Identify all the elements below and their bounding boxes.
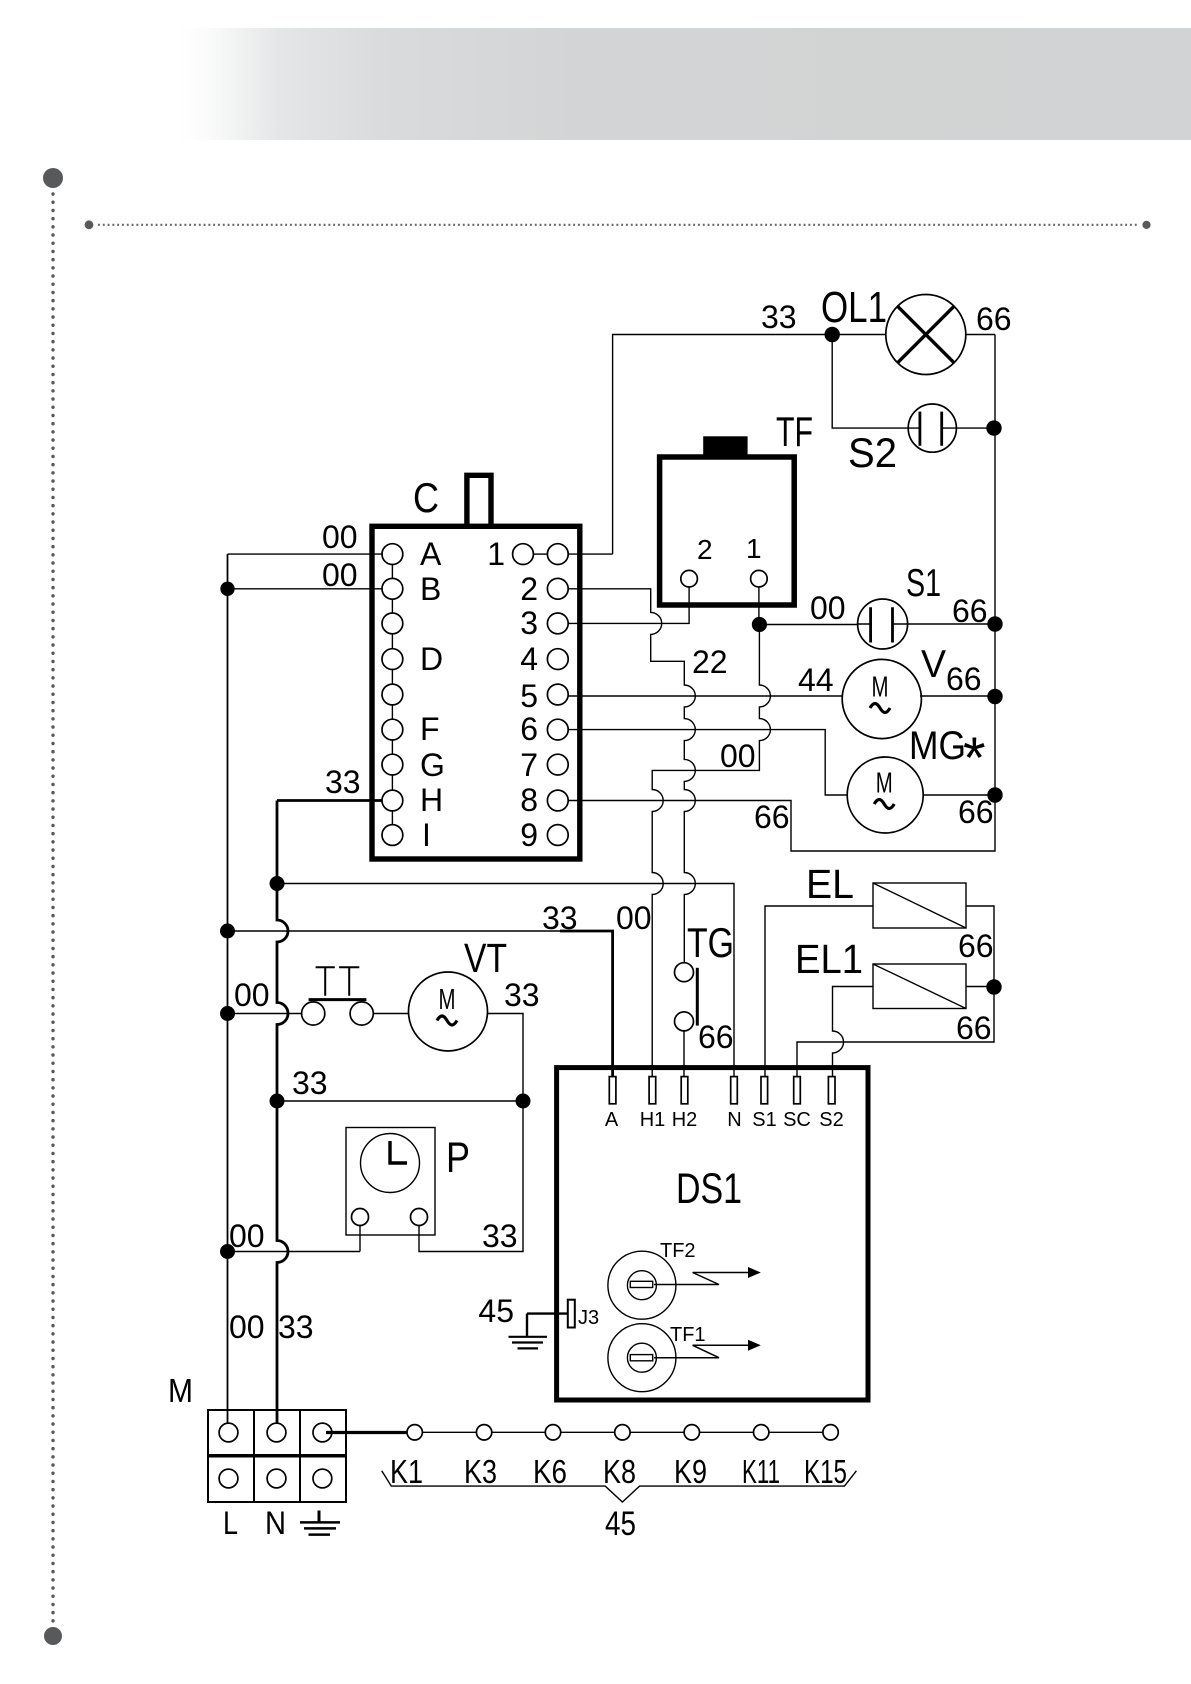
- pin S1 of DS1: [761, 1077, 768, 1104]
- wire K8-K9: [630, 1431, 684, 1433]
- wire 00 bus left vertical: [227, 554, 229, 1423]
- svg-text:EL: EL: [806, 861, 854, 907]
- wire M block to K1: [326, 1431, 407, 1434]
- terminal N top: [267, 1423, 286, 1442]
- svg-text:M: M: [876, 767, 893, 799]
- svg-text:*: *: [963, 726, 986, 791]
- wire VT to 33 node: [488, 1014, 524, 1102]
- svg-text:EL1: EL1: [795, 936, 863, 982]
- pin S2 of DS1: [828, 1077, 835, 1104]
- junction dot VT/P 1101: [516, 1094, 531, 1109]
- pin H2 of DS1: [681, 1077, 688, 1104]
- svg-text:M: M: [168, 1372, 193, 1409]
- svg-text:P: P: [446, 1134, 470, 1182]
- svg-text:33: 33: [292, 1065, 328, 1101]
- svg-text:5: 5: [520, 678, 538, 714]
- pin 6: [547, 719, 568, 740]
- svg-text:00: 00: [720, 738, 756, 774]
- terminal E bottom: [313, 1469, 332, 1488]
- svg-text:00: 00: [616, 900, 652, 936]
- pin C2: [382, 613, 403, 634]
- wire TF pin1 down to junction: [758, 587, 760, 625]
- pin 3: [547, 613, 568, 634]
- svg-text:45: 45: [478, 1293, 514, 1329]
- switch S2 branch wire: [832, 335, 908, 429]
- terminal K15: [823, 1425, 838, 1440]
- svg-text:22: 22: [692, 644, 728, 680]
- wire EL left to DS1 pin S1: [765, 906, 873, 1078]
- wire 00 bus to DS1 pin A: [228, 930, 561, 932]
- svg-text:I: I: [422, 817, 431, 853]
- svg-text:00: 00: [234, 977, 270, 1013]
- wire TG to DS1 pin H2: [683, 1031, 685, 1078]
- wire 33 bus left vertical with hops: [277, 801, 288, 1424]
- svg-text:33: 33: [761, 299, 797, 335]
- terminal K11: [754, 1425, 769, 1440]
- svg-text:TF: TF: [776, 408, 813, 455]
- svg-text:F: F: [420, 711, 440, 747]
- svg-text:66: 66: [956, 1010, 992, 1046]
- pin A: [382, 544, 403, 565]
- svg-text:00: 00: [229, 1309, 265, 1345]
- junction dot S2/66: [986, 420, 1001, 435]
- pin SC of DS1: [794, 1077, 801, 1104]
- wire C pin H to 33 bus: [277, 799, 382, 802]
- wire 33 bus to DS1 pin N: [277, 884, 734, 1079]
- wire net 22 from C pin2 with hops: [568, 589, 695, 963]
- brace under K row: [382, 1471, 857, 1502]
- wire P left terminal down: [359, 1226, 361, 1252]
- wire C pin A to 00 bus: [228, 553, 383, 555]
- svg-text:66: 66: [754, 799, 790, 835]
- svg-text:66: 66: [698, 1019, 734, 1055]
- terminal L bottom: [219, 1469, 238, 1488]
- ground symbol at M block: [300, 1511, 340, 1535]
- terminal K8: [615, 1425, 630, 1440]
- pin 9: [547, 825, 568, 846]
- junction dot 33 bus 1101: [270, 1094, 285, 1109]
- pin B: [382, 578, 403, 599]
- pin I: [382, 825, 403, 846]
- wire 66 bus right vertical with corner to C pin8: [568, 335, 995, 852]
- svg-text:44: 44: [798, 662, 834, 698]
- junction dot V/66: [987, 689, 1002, 704]
- junction dot EL1/66: [986, 979, 1001, 994]
- junction dot 33 bus at 883: [270, 876, 285, 891]
- wire net 33 top (C pin1 to OL1): [613, 335, 833, 555]
- switch TT (twin push-button): [302, 967, 374, 1025]
- svg-text:SC: SC: [783, 1109, 811, 1131]
- svg-text:DS1: DS1: [676, 1165, 742, 1213]
- svg-text:G: G: [420, 747, 445, 783]
- heating element EL1: [795, 936, 966, 1009]
- svg-text:MG: MG: [909, 724, 966, 768]
- terminal block M: [168, 1372, 347, 1541]
- svg-text:2: 2: [520, 571, 538, 607]
- terminal K9: [684, 1425, 699, 1440]
- fuse TF1: [608, 1324, 761, 1392]
- svg-text:00: 00: [322, 519, 358, 555]
- svg-text:H: H: [420, 782, 443, 818]
- pin H: [382, 790, 403, 811]
- svg-text:S2: S2: [848, 429, 897, 476]
- svg-text:TF2: TF2: [660, 1240, 696, 1262]
- wire net 00 from TF pin1 with hops to DS1 pin H1: [652, 625, 770, 1079]
- svg-text:A: A: [420, 536, 442, 572]
- terminal J3: [568, 1300, 575, 1328]
- wire S2 to 66 bus: [956, 427, 995, 429]
- wire K9-K11: [700, 1431, 754, 1433]
- svg-text:33: 33: [325, 764, 361, 800]
- svg-text:K6: K6: [533, 1453, 567, 1490]
- svg-text:00: 00: [322, 557, 358, 593]
- thermostat TG: [675, 919, 735, 1055]
- junction dot MG/66: [987, 787, 1002, 802]
- terminal N bottom: [267, 1469, 286, 1488]
- svg-text:1: 1: [746, 533, 762, 564]
- junction dot 00 bus at 931: [220, 924, 235, 939]
- svg-text:L: L: [223, 1505, 238, 1541]
- connector row K: [390, 1425, 847, 1490]
- svg-text:S1: S1: [906, 562, 941, 605]
- junction dot 00 bus at TT: [220, 1006, 235, 1021]
- wire K1-K3: [422, 1431, 476, 1433]
- svg-text:K11: K11: [742, 1453, 780, 1490]
- pin 2: [547, 578, 568, 599]
- wire S1 to 66 bus: [908, 623, 995, 625]
- svg-text:6: 6: [520, 711, 538, 747]
- fuse TF2: [608, 1240, 761, 1319]
- terminal K6: [545, 1425, 560, 1440]
- wire 00 bus to TT: [228, 1013, 302, 1015]
- svg-text:K8: K8: [603, 1453, 636, 1490]
- terminal E top: [313, 1423, 332, 1442]
- svg-text:66: 66: [952, 593, 988, 629]
- wire C pin B to 00 bus: [228, 588, 383, 590]
- svg-text:2: 2: [697, 534, 713, 565]
- pin 1 (two circles): [513, 544, 534, 565]
- wire junction to S1: [759, 624, 857, 626]
- terminal L top: [219, 1423, 238, 1442]
- pin F: [382, 719, 403, 740]
- svg-text:K3: K3: [464, 1453, 497, 1490]
- svg-text:D: D: [420, 641, 443, 677]
- svg-text:B: B: [420, 571, 441, 607]
- svg-text:1: 1: [487, 536, 505, 572]
- svg-text:K15: K15: [804, 1453, 847, 1490]
- svg-text:33: 33: [542, 900, 578, 936]
- junction dot S1/66: [987, 616, 1002, 631]
- wire C pin1 to node 33: [568, 553, 612, 555]
- switch S2: [848, 404, 956, 476]
- wire motor V to 66 bus: [920, 695, 995, 697]
- wire K3-K6: [492, 1431, 546, 1433]
- svg-text:66: 66: [976, 301, 1012, 337]
- svg-text:00: 00: [810, 590, 846, 626]
- svg-text:J3: J3: [578, 1307, 599, 1329]
- terminal K1: [407, 1425, 422, 1440]
- wire motor MG to 66 bus: [923, 794, 995, 796]
- ground symbol at J3: [509, 1314, 548, 1349]
- wire ground to J3: [527, 1312, 568, 1314]
- wire EL1 left to DS1 pin S2 with hop: [833, 987, 874, 1079]
- wire EL right to 66 node: [797, 906, 994, 1078]
- svg-text:C: C: [413, 474, 439, 521]
- svg-text:OL1: OL1: [821, 283, 887, 332]
- svg-text:K1: K1: [390, 1453, 423, 1490]
- svg-text:00: 00: [229, 1218, 265, 1254]
- wire K6-K8: [561, 1431, 615, 1433]
- svg-text:S1: S1: [752, 1109, 776, 1131]
- wire TT to VT: [373, 1013, 409, 1015]
- svg-text:66: 66: [946, 661, 982, 697]
- svg-text:H2: H2: [672, 1109, 698, 1131]
- terminal K3: [476, 1425, 491, 1440]
- svg-text:7: 7: [520, 747, 538, 783]
- pin 5: [547, 684, 568, 705]
- wire 00 bus to P left terminal: [228, 1251, 361, 1253]
- control board DS1: [557, 1068, 868, 1400]
- connector C: [372, 474, 580, 859]
- junction dot TF pin1 / 00 net: [752, 617, 767, 632]
- svg-text:33: 33: [504, 977, 540, 1013]
- svg-text:H1: H1: [640, 1109, 666, 1131]
- pin E: [382, 684, 403, 705]
- svg-text:TG: TG: [687, 919, 734, 966]
- svg-text:9: 9: [520, 817, 538, 853]
- motor MG*: [847, 724, 985, 833]
- svg-text:VT: VT: [464, 935, 507, 981]
- wire C pin6 to motor MG: [568, 730, 847, 795]
- pin 1 of TF: [751, 570, 768, 587]
- terminal left of P: [352, 1209, 369, 1226]
- pin N of DS1: [731, 1077, 738, 1104]
- lamp OL1: [821, 283, 966, 375]
- pin A of DS1: [609, 1077, 616, 1104]
- svg-text:8: 8: [520, 782, 538, 818]
- junction dot 00 bus 1251: [220, 1244, 235, 1259]
- svg-text:33: 33: [278, 1309, 314, 1345]
- wire OL1 to 66 bus: [966, 334, 995, 336]
- pin H1 of DS1: [649, 1077, 656, 1104]
- svg-text:M: M: [872, 671, 889, 703]
- svg-text:M: M: [439, 984, 456, 1016]
- wire TF pin2 to C pin3: [568, 587, 689, 623]
- svg-text:N: N: [265, 1505, 286, 1541]
- timer P: [346, 1128, 470, 1236]
- junction dot B/00 bus: [220, 582, 234, 596]
- wire P right terminal to 33 node: [419, 1101, 523, 1252]
- motor V: [842, 643, 946, 739]
- svg-text:4: 4: [520, 641, 538, 677]
- switch S1: [858, 562, 941, 649]
- pin 4: [547, 649, 568, 670]
- transformer TF box: [660, 408, 813, 605]
- pin 7: [547, 754, 568, 775]
- svg-text:3: 3: [520, 605, 538, 641]
- svg-text:S2: S2: [819, 1109, 843, 1131]
- left pin chain wire: [391, 554, 393, 835]
- wire K11-K15: [769, 1431, 823, 1433]
- heating element EL: [806, 861, 966, 928]
- svg-text:33: 33: [482, 1218, 518, 1254]
- pin G: [382, 754, 403, 775]
- svg-text:66: 66: [958, 928, 994, 964]
- pin 2 of TF: [681, 570, 698, 587]
- svg-text:45: 45: [605, 1505, 636, 1543]
- motor VT: [409, 935, 508, 1051]
- svg-text:V: V: [921, 643, 946, 686]
- svg-text:TF1: TF1: [670, 1324, 706, 1346]
- svg-text:N: N: [727, 1109, 741, 1131]
- svg-text:K9: K9: [674, 1453, 707, 1490]
- wire 33 bus to VT/P node: [277, 1100, 523, 1102]
- wire EL1 right to 66 node: [966, 986, 994, 988]
- junction dot 33/OL1: [825, 327, 840, 342]
- wire net 44 C pin5 to motor V: [568, 695, 842, 697]
- pin D: [382, 649, 403, 670]
- svg-text:A: A: [605, 1109, 619, 1131]
- terminal right of P: [411, 1209, 428, 1226]
- svg-text:66: 66: [958, 794, 994, 830]
- pin 8: [547, 790, 568, 811]
